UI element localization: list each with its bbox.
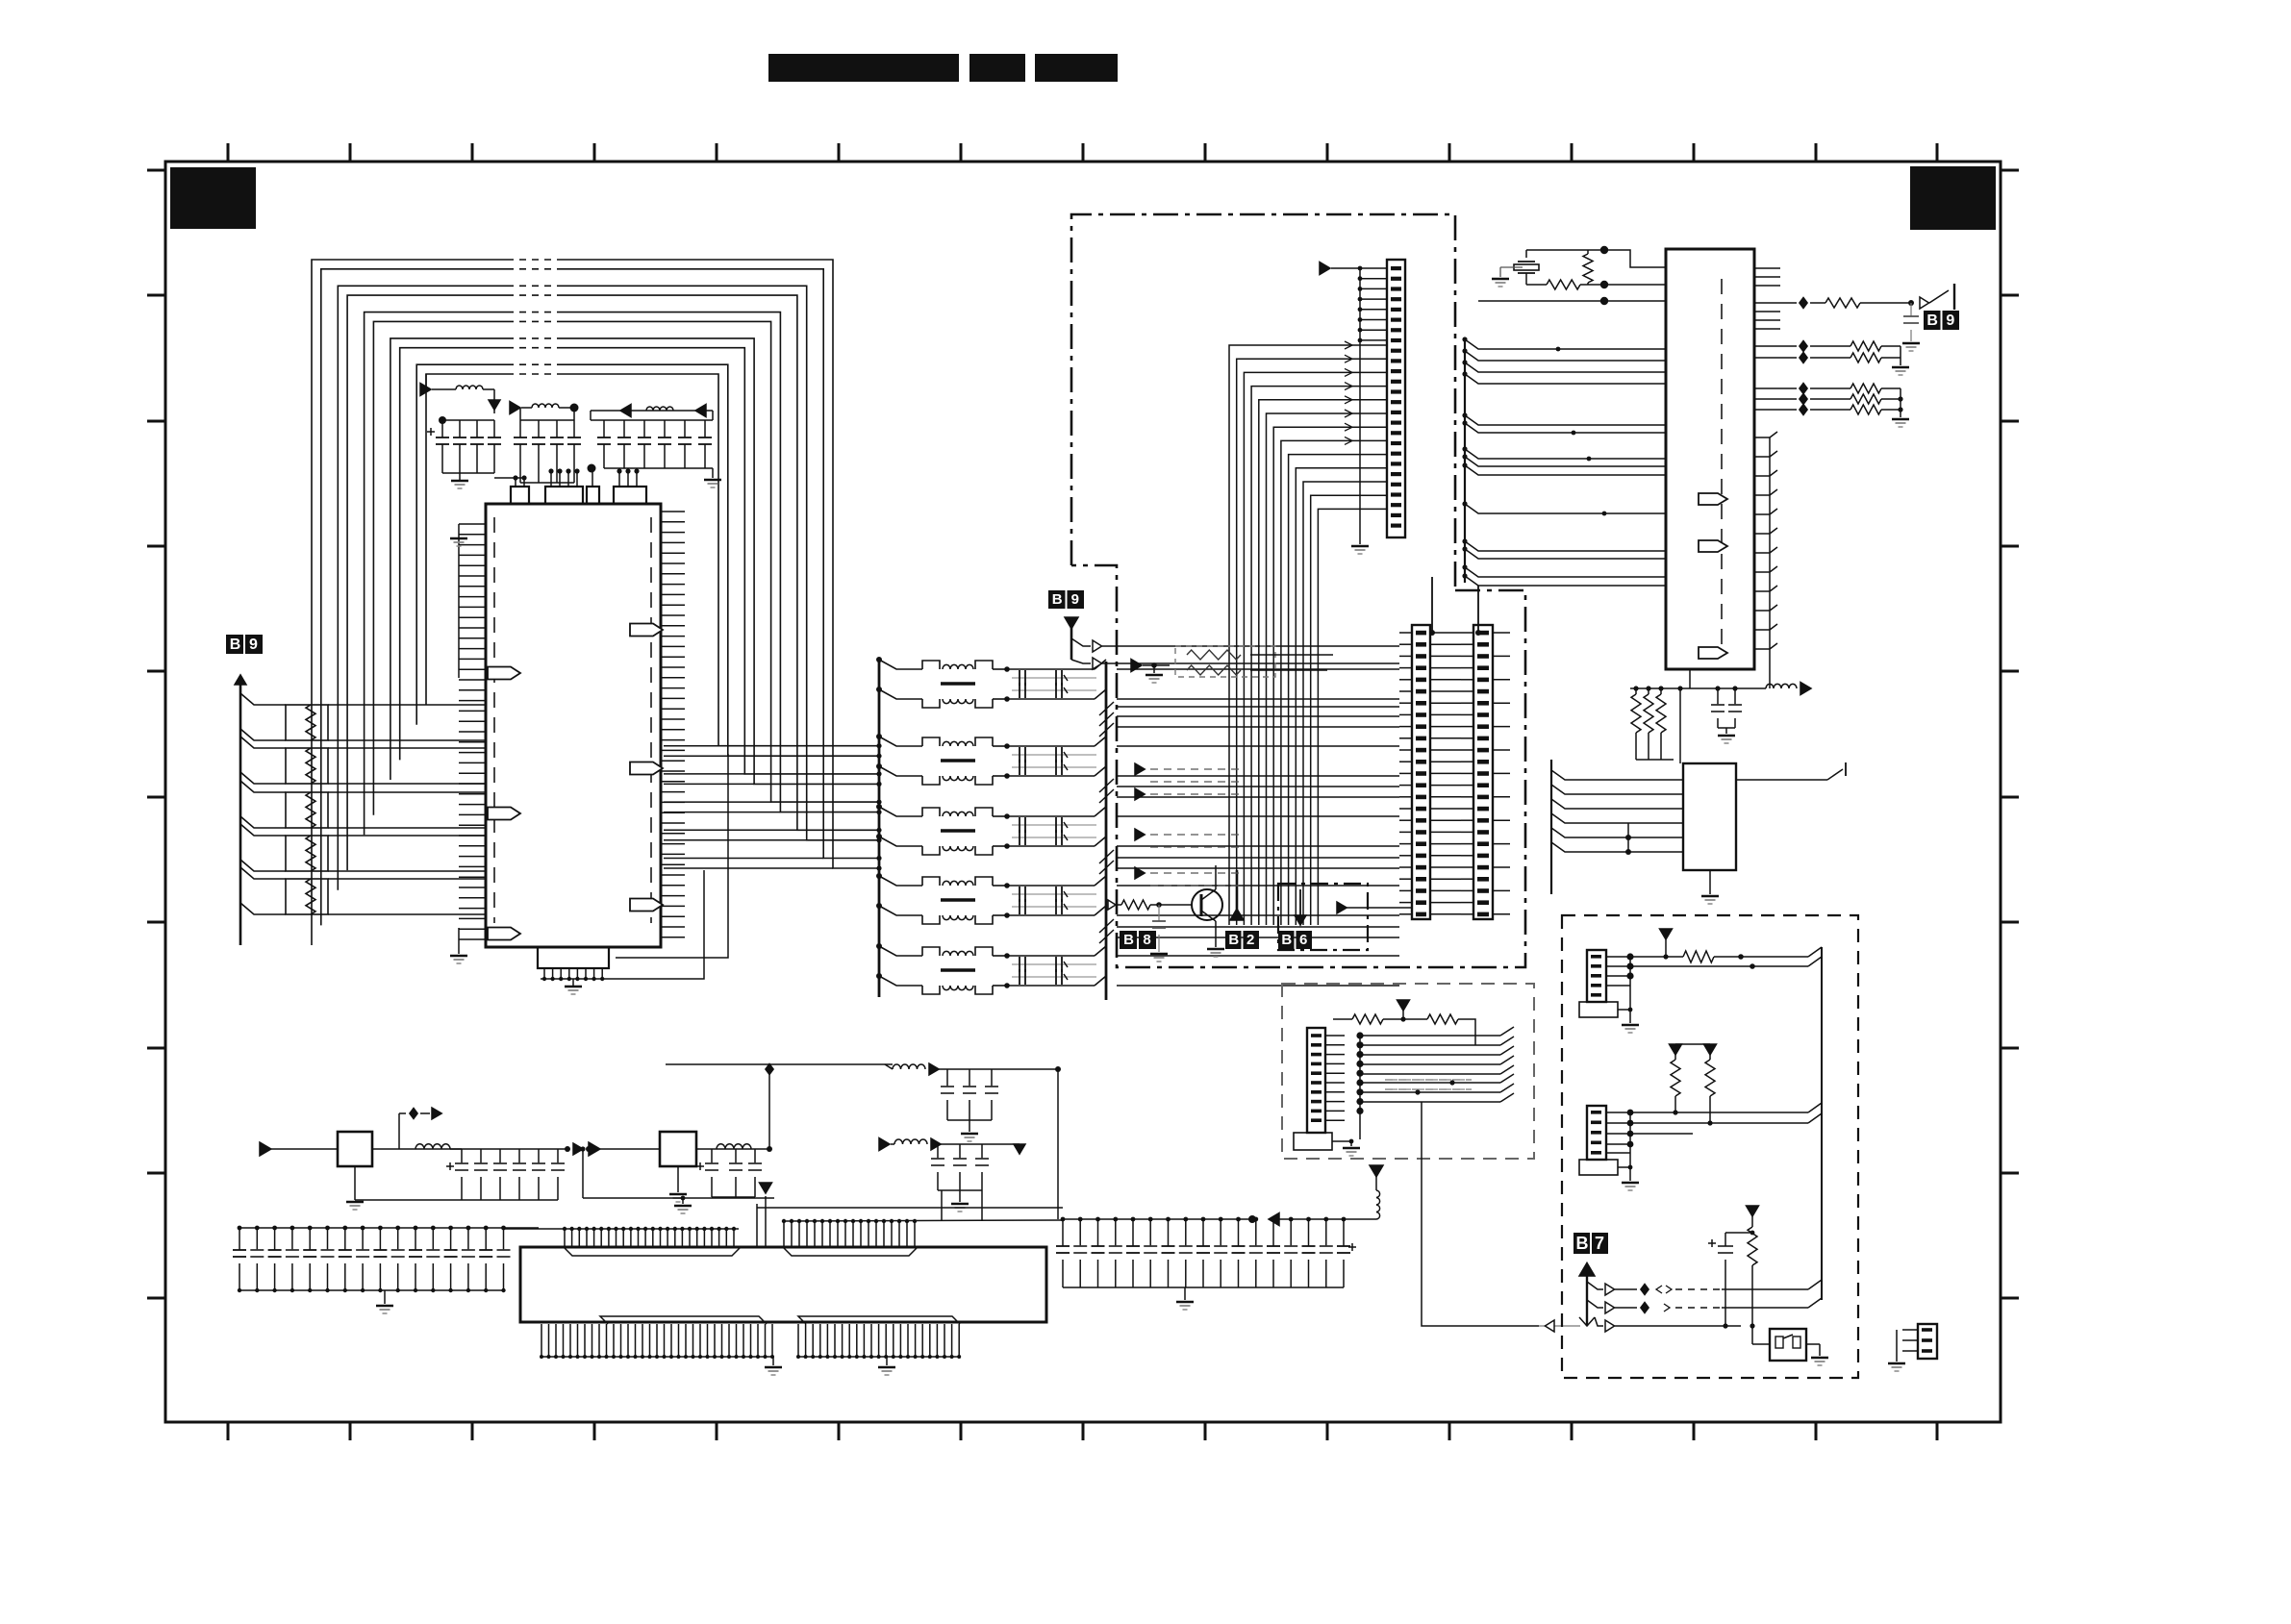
ferrite/inductor L102 with arrow — [510, 402, 520, 414]
wire arrowheads at CN301 — [1345, 341, 1352, 349]
ground at U101 — [458, 928, 460, 954]
bus crossover hops — [1099, 702, 1114, 715]
inductor L403 — [1376, 1190, 1380, 1219]
header J102 — [545, 487, 583, 504]
svg-text:B: B — [230, 637, 241, 653]
keypad section boundary (dashed) — [1562, 915, 1858, 1378]
supply entry B2 — [1236, 870, 1239, 912]
wire to U301 pin — [1478, 300, 1666, 302]
U403 bottom pins group 2 — [797, 1324, 799, 1357]
wire bus loop (address/data bundle) — [312, 260, 879, 945]
U302 output — [1737, 779, 1827, 781]
supply riser — [768, 1064, 770, 1149]
inductor L310 — [1766, 684, 1797, 688]
ferrite/inductor L101 with arrow — [425, 374, 427, 389]
sheet corner marker top-left — [170, 167, 256, 229]
resistor trio R304-R306 — [1754, 387, 1797, 389]
risers above CN302/CN303 — [1431, 577, 1433, 633]
common-mode filter T205 — [879, 946, 922, 956]
capacitor bank C440-C456 — [1063, 1218, 1252, 1220]
CN304 shell — [1294, 1133, 1332, 1150]
dashed control wires — [1150, 768, 1241, 770]
ground at CN402 — [1629, 1112, 1631, 1175]
CN401 shell — [1579, 1002, 1618, 1017]
feed bus to U301 — [1464, 338, 1466, 583]
crystal X301 circuit — [1525, 250, 1527, 258]
IC U302 (audio amp) — [1683, 763, 1736, 870]
net label B9 (left) — [226, 635, 243, 654]
gray dashed pair — [1385, 1079, 1472, 1081]
feed bus to U302 — [1550, 760, 1552, 894]
capacitor bank C420-C435 — [239, 1227, 539, 1229]
svg-text:B: B — [1926, 312, 1938, 329]
IC U101 right pins — [661, 511, 685, 512]
supply bus from B9 — [239, 677, 242, 945]
IC U101 left pins — [459, 523, 486, 525]
svg-text:2: 2 — [1246, 932, 1254, 948]
connector CN301 — [1387, 260, 1405, 537]
filter caps C204 — [1012, 893, 1096, 895]
IC U301 (deflection) — [1666, 249, 1754, 669]
svg-text:B: B — [1576, 1234, 1589, 1253]
lower LC group — [879, 1138, 890, 1151]
wire from CN304 region — [1422, 1102, 1539, 1326]
svg-text:8: 8 — [1143, 932, 1150, 948]
inductor L402 — [717, 1144, 751, 1149]
output R301 to tuner — [1754, 302, 1797, 304]
header J103 — [587, 487, 599, 504]
connector CN302 — [1412, 625, 1430, 919]
U403 bottom pins group 1 — [541, 1324, 542, 1357]
connector CN301 feed bus — [1359, 268, 1361, 536]
caps C310 C311 — [1717, 688, 1719, 705]
net label B6 — [1278, 931, 1295, 949]
riser to cap rail — [1057, 1069, 1059, 1219]
capacitor C301 — [1158, 905, 1160, 921]
resistor network RN1 — [240, 693, 286, 705]
capacitor bank C110-C115 — [591, 419, 713, 421]
title block (redacted) — [768, 54, 959, 82]
connector CN304 — [1307, 1028, 1325, 1133]
svg-text:7: 7 — [1595, 1234, 1604, 1253]
connector CN401 — [1587, 950, 1606, 1002]
capacitor C410 — [1708, 1242, 1716, 1244]
svg-text:B: B — [1123, 932, 1134, 948]
resistor pair R302 R303 — [1754, 345, 1797, 347]
U403 top pins group 2 — [784, 1220, 1063, 1221]
supply entry — [1660, 929, 1673, 939]
key lines — [1587, 1282, 1603, 1289]
wire riser from J105 — [612, 870, 704, 979]
IC U101 left pin bus — [458, 524, 460, 678]
filter caps C203 — [1012, 824, 1096, 826]
wire bus dashed crossover — [507, 259, 561, 261]
IC U403 (memory) — [520, 1247, 1046, 1322]
connector CN402 — [1587, 1106, 1606, 1160]
rail drop from U301 — [1769, 437, 1771, 688]
supply entry B9 center — [1065, 617, 1078, 629]
supply entry to U403 — [760, 1183, 772, 1193]
svg-text:9: 9 — [1946, 312, 1954, 329]
CN304 junction dots — [1359, 1036, 1361, 1139]
U301 right pins — [1754, 267, 1780, 269]
voltage regulator U401 — [260, 1142, 271, 1156]
capacitor bank C101-C105 — [442, 419, 494, 421]
supply entry IR — [1397, 1000, 1410, 1011]
supply rail — [1630, 687, 1766, 689]
net label B2 — [1225, 931, 1242, 949]
wires CN302-CN303 — [1430, 632, 1461, 634]
resistor R404 — [1747, 1206, 1759, 1216]
IR receiver box (dashed) — [1282, 984, 1534, 1159]
voltage regulator U402 — [589, 1142, 600, 1156]
resistors R310-R312 — [1631, 694, 1641, 733]
caps C407-C409 — [696, 1165, 704, 1167]
net label B9 (center) — [1048, 590, 1066, 609]
U301 lower right pins — [1754, 437, 1770, 438]
U403 risers to LC groups — [756, 1204, 758, 1247]
common-mode filter T201 — [879, 660, 922, 669]
filter caps C201 — [1012, 677, 1096, 679]
supply entry B7 — [1579, 1262, 1595, 1276]
transistor Q301 — [1108, 900, 1116, 910]
termination resistors (dashed outline) — [1131, 660, 1142, 672]
header J104 — [614, 487, 646, 504]
inductor L401 — [415, 1144, 450, 1149]
signal wires filter to CN302 — [1117, 668, 1399, 670]
common-mode filter T204 — [879, 876, 922, 886]
svg-text:B: B — [1228, 932, 1239, 948]
switch region B6 (dash-dot) — [1278, 884, 1368, 950]
capacitor C302 — [1910, 303, 1912, 316]
IR signal wires — [1360, 1035, 1500, 1037]
svg-text:B: B — [1281, 932, 1292, 948]
regulator U402 ground — [677, 1166, 679, 1192]
filter caps C205 — [1012, 963, 1096, 965]
regulator U401 ground — [354, 1166, 356, 1200]
wire staircase bundle to CN301 — [1229, 345, 1387, 925]
common-mode filter T203 — [879, 807, 922, 816]
reset switch S401 — [1770, 1329, 1806, 1361]
stubs right of CN303 — [1493, 632, 1510, 634]
resistors R420 R421 — [1333, 1018, 1352, 1020]
IC U101 port arrows — [488, 667, 520, 680]
branch arrow — [398, 1113, 400, 1149]
net label B9 (right) — [1924, 311, 1941, 330]
svg-text:B: B — [1052, 591, 1063, 608]
capacitor bank C401-C406 — [450, 1148, 567, 1150]
svg-text:9: 9 — [249, 637, 258, 653]
header J105 (bottom of U101) — [538, 947, 609, 968]
CN402 shell — [1579, 1160, 1618, 1175]
net label B7 — [1573, 1233, 1590, 1254]
shield boundary (dash-dot) — [1071, 214, 1455, 590]
keypad bus — [1821, 947, 1823, 1300]
filter bus left — [878, 662, 881, 997]
sheet corner marker top-right — [1910, 166, 1996, 230]
supply arrow to CN301 — [1320, 262, 1330, 275]
IC U101 (video processor) — [486, 504, 661, 947]
pull resistors R402 R403 — [1670, 1044, 1682, 1055]
ferrite/inductor L103 with arrows — [591, 410, 713, 412]
capacitor bank C106-C109 — [520, 419, 574, 421]
svg-text:9: 9 — [1071, 591, 1079, 608]
net label B8 — [1120, 931, 1137, 949]
svg-text:6: 6 — [1299, 932, 1307, 948]
header J101 — [511, 487, 529, 504]
filter bus right — [1105, 662, 1108, 1000]
connector CN303 — [1473, 625, 1493, 919]
common-mode filter T202 — [879, 737, 922, 746]
U403 top pins group 1 — [504, 1228, 739, 1230]
ground rail above U403 — [583, 1197, 774, 1199]
ground at CN401 — [1629, 957, 1631, 1017]
filter caps C202 — [1012, 754, 1096, 756]
pullup resistor R401 — [1630, 956, 1683, 958]
connector CN403 — [1918, 1324, 1937, 1359]
upper LC group — [666, 1063, 893, 1065]
